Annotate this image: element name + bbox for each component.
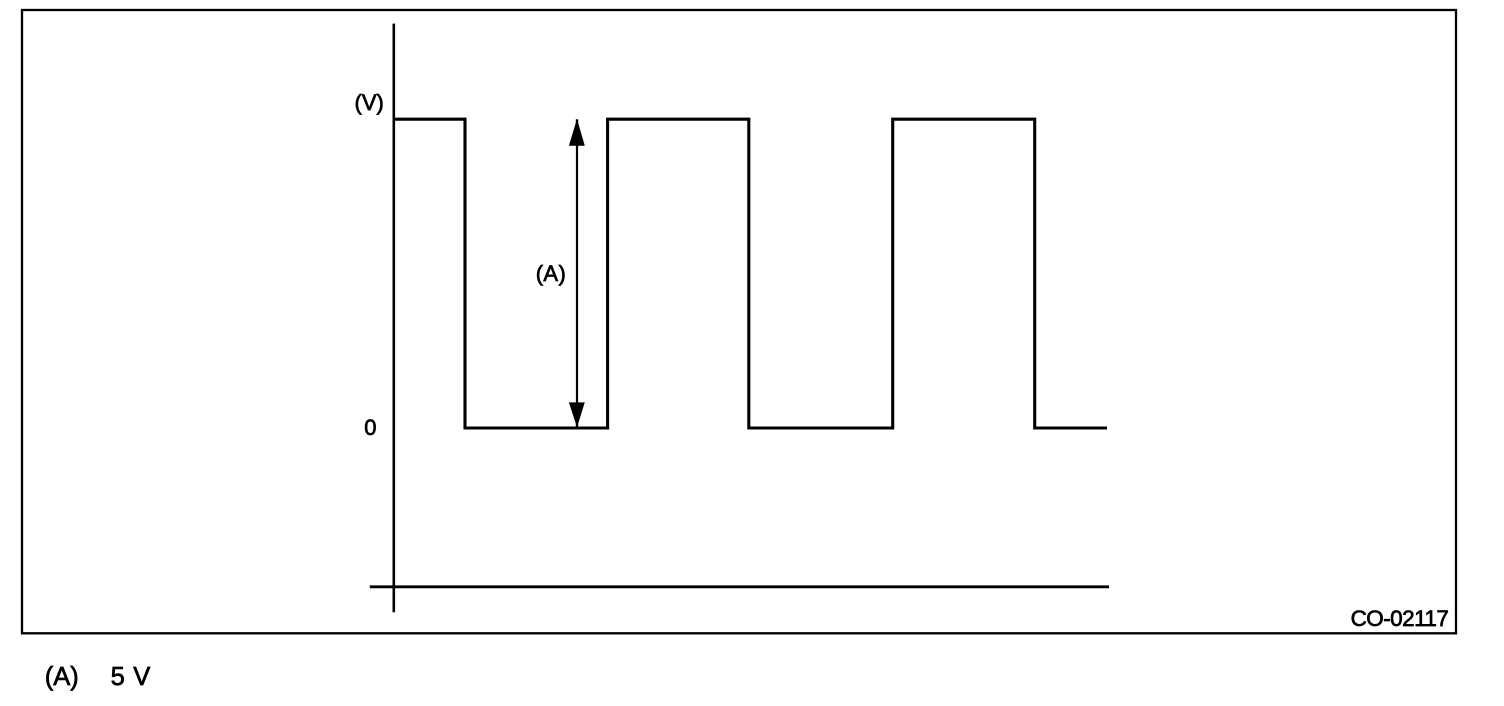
svg-text:(A): (A) bbox=[536, 261, 567, 286]
svg-text:(A): (A) bbox=[45, 663, 79, 691]
square wave falling edge 3 bbox=[1033, 118, 1036, 430]
svg-text:V: V bbox=[133, 663, 150, 691]
square wave rising edge 1 bbox=[606, 118, 609, 430]
square wave rising edge 2 bbox=[891, 118, 894, 430]
horizontal axis (time axis) bbox=[370, 585, 1109, 588]
svg-text:5: 5 bbox=[111, 663, 125, 691]
svg-text:CO-02117: CO-02117 bbox=[1351, 606, 1449, 631]
square wave high segment 2 bbox=[608, 118, 749, 121]
amplitude double arrow (A) bbox=[569, 119, 585, 427]
svg-text:(V): (V) bbox=[355, 90, 384, 115]
svg-text:0: 0 bbox=[364, 415, 376, 440]
square wave high segment 3 bbox=[893, 118, 1035, 121]
square wave high segment 1 bbox=[393, 118, 465, 121]
square wave low segment 1 bbox=[465, 426, 608, 429]
square wave falling edge 2 bbox=[747, 118, 750, 430]
vertical axis (voltage axis) bbox=[392, 24, 395, 613]
legend note (A) 5 V bbox=[45, 663, 151, 691]
square wave low segment 2 bbox=[749, 426, 893, 429]
square wave low segment 3 bbox=[1035, 426, 1107, 429]
square wave falling edge 1 bbox=[463, 118, 466, 430]
